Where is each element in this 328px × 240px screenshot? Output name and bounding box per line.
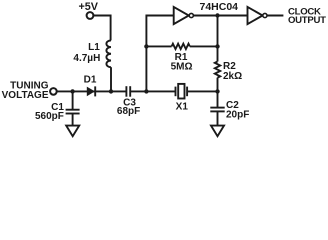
svg-text:+5V: +5V (78, 1, 98, 13)
svg-text:74HC04: 74HC04 (200, 1, 239, 13)
svg-text:X1: X1 (176, 102, 189, 113)
svg-text:560pF: 560pF (35, 111, 64, 122)
svg-text:OUTPUT: OUTPUT (288, 15, 326, 26)
svg-text:5MΩ: 5MΩ (171, 62, 193, 73)
svg-text:L1: L1 (88, 42, 100, 53)
svg-text:68pF: 68pF (117, 106, 140, 117)
svg-text:20pF: 20pF (226, 110, 249, 121)
svg-text:4.7µH: 4.7µH (73, 53, 100, 64)
svg-text:VOLTAGE: VOLTAGE (2, 90, 49, 101)
svg-text:D1: D1 (84, 75, 97, 86)
svg-text:2kΩ: 2kΩ (223, 71, 242, 82)
